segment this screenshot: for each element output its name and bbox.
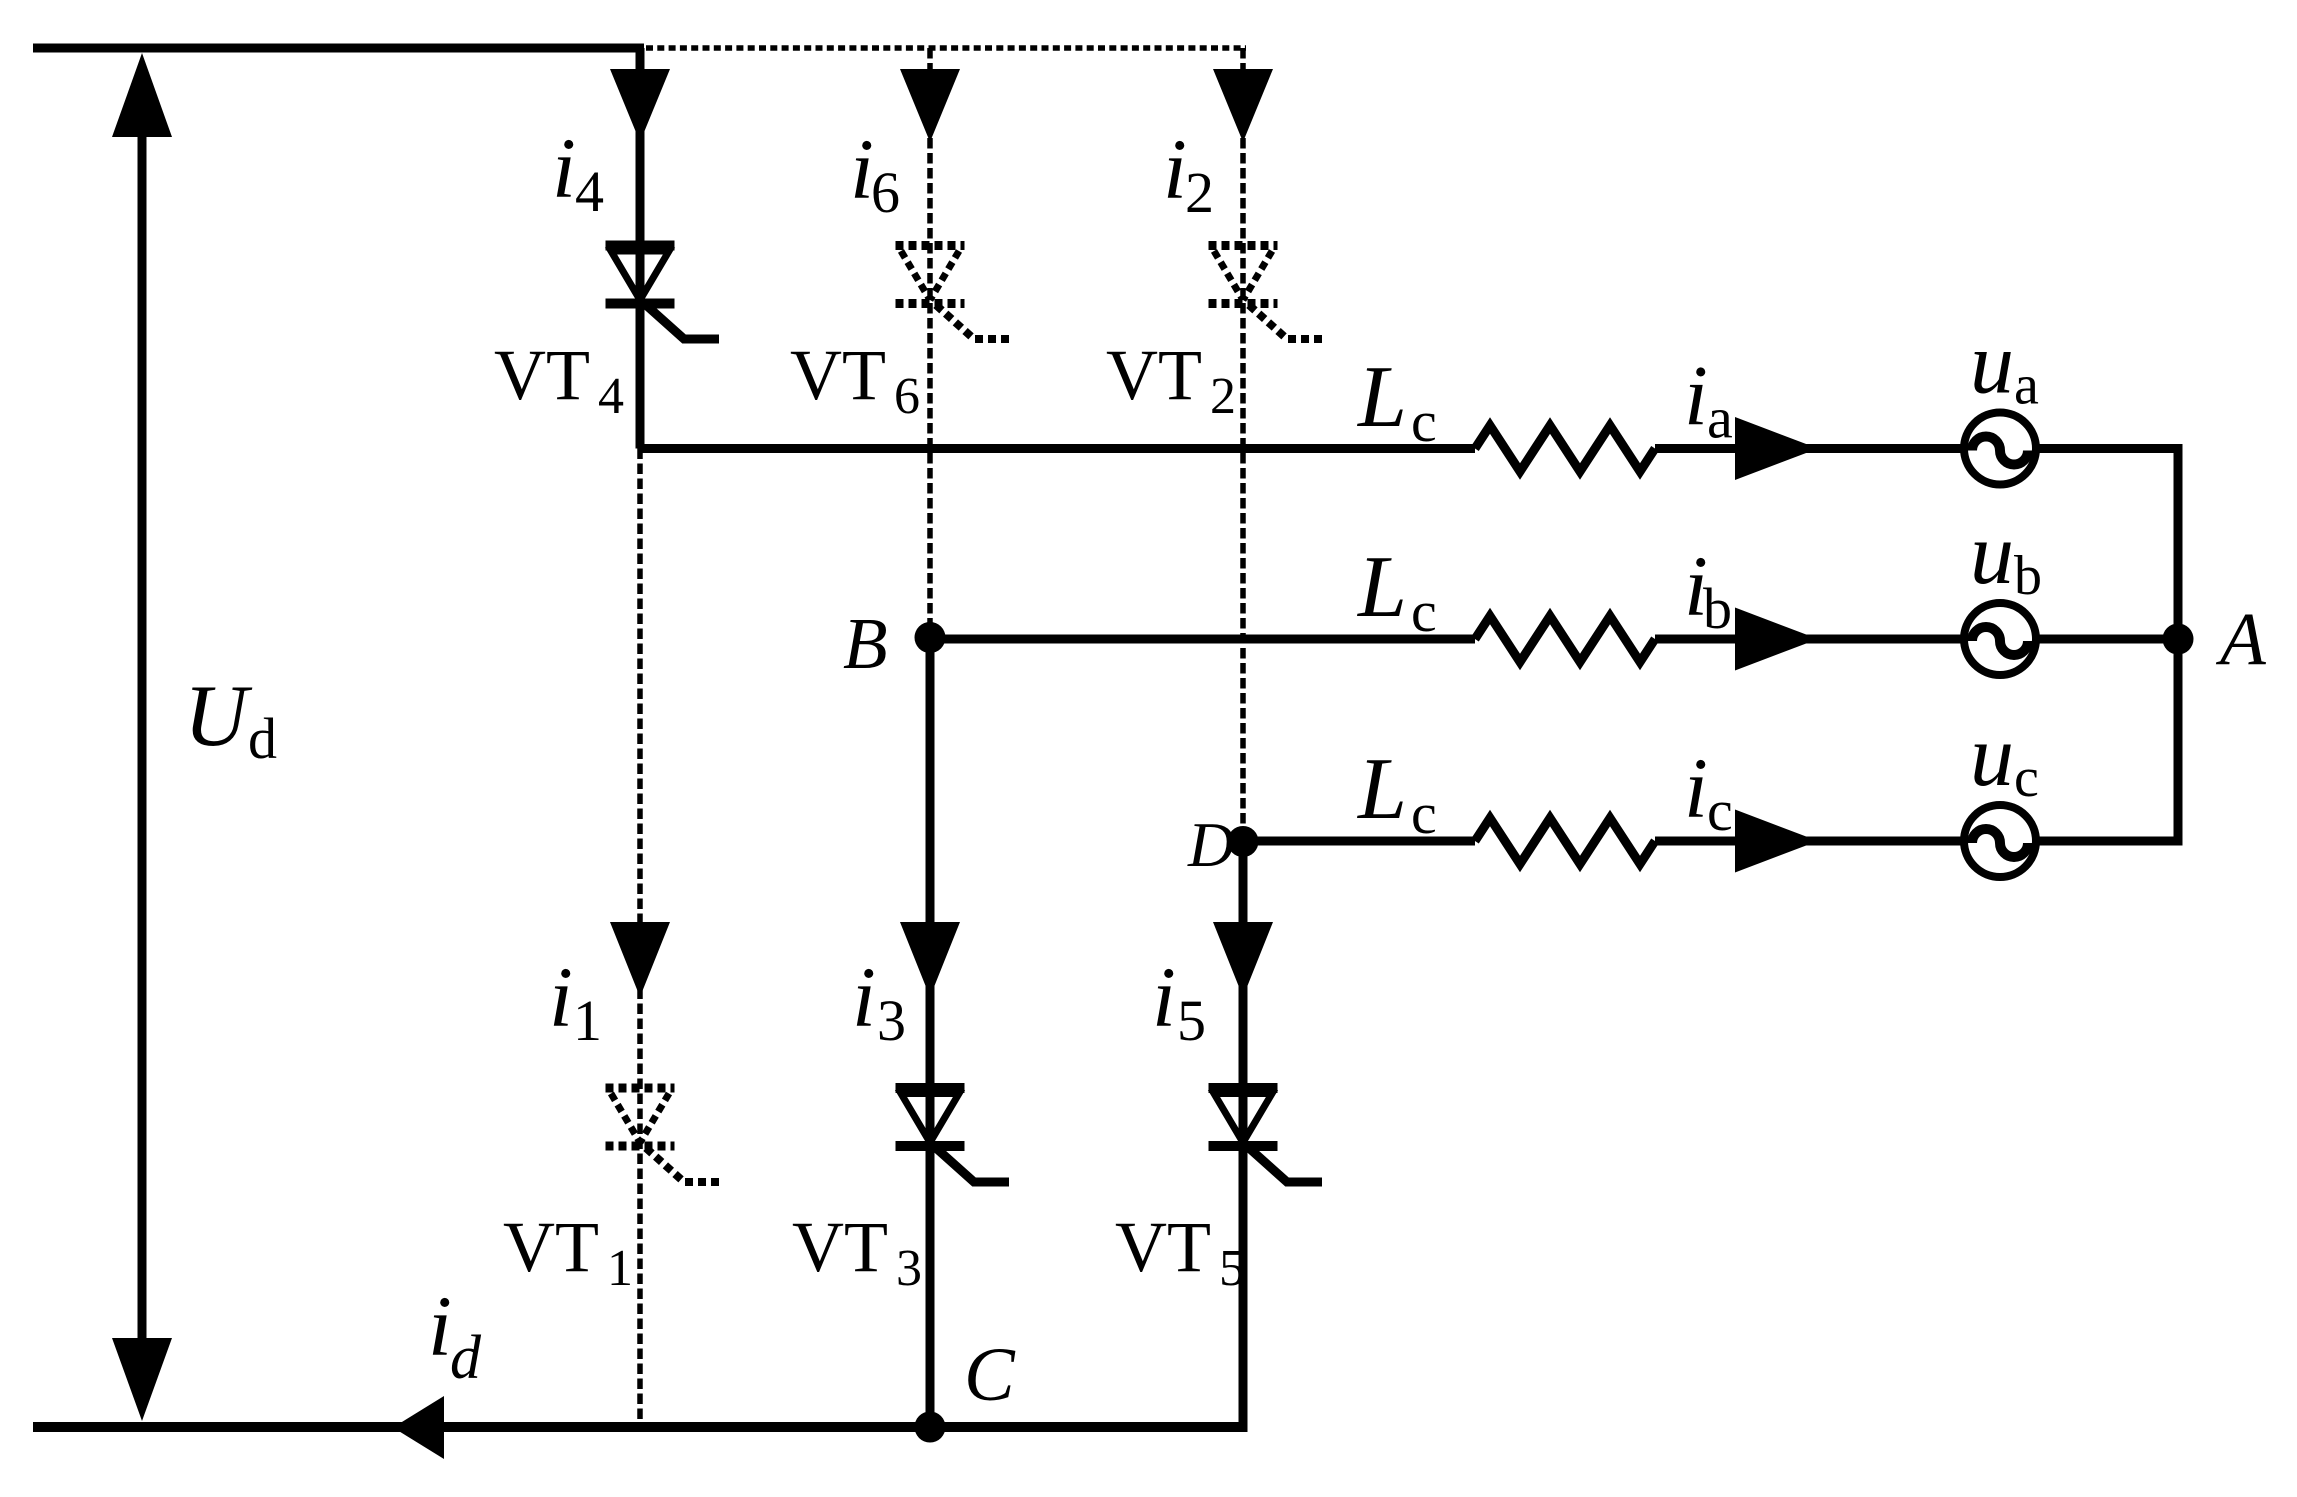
i3 current arrow — [900, 922, 960, 997]
label i2 — [1163, 121, 1214, 225]
svg-text:i: i — [549, 949, 573, 1045]
svg-text:u: u — [1970, 708, 2014, 805]
label ic — [1684, 740, 1733, 843]
svg-text:2: 2 — [1185, 160, 1214, 225]
label VT6 — [790, 335, 920, 425]
label Lc phase a — [1356, 349, 1437, 454]
svg-text:5: 5 — [1219, 1240, 1245, 1297]
node C — [915, 1412, 946, 1443]
thyristor VT3 — [896, 1088, 1010, 1182]
label ib — [1684, 538, 1732, 641]
svg-text:VT: VT — [792, 1207, 888, 1287]
Ud arrow head bottom — [112, 1338, 172, 1421]
id current arrow (left) — [393, 1396, 444, 1459]
label ia — [1684, 348, 1733, 451]
svg-text:1: 1 — [607, 1240, 633, 1297]
svg-text:c: c — [1411, 389, 1437, 454]
wire phase a horizontal — [640, 444, 2183, 453]
svg-text:c: c — [1411, 579, 1437, 644]
svg-text:u: u — [1970, 506, 2014, 603]
node B — [915, 622, 946, 653]
svg-text:i: i — [1163, 121, 1187, 217]
svg-text:b: b — [1703, 576, 1732, 641]
svg-text:a: a — [2014, 355, 2039, 417]
svg-text:c: c — [1707, 778, 1733, 843]
inductor Lc phase a zigzag — [1475, 426, 1655, 472]
thyristor VT5 — [1209, 1088, 1323, 1182]
svg-text:B: B — [843, 603, 888, 684]
svg-text:L: L — [1356, 741, 1407, 838]
label VT3 — [792, 1207, 922, 1297]
i2 current arrow — [1213, 69, 1273, 142]
AC source ub — [1964, 603, 2036, 675]
svg-text:3: 3 — [877, 988, 906, 1053]
svg-text:VT: VT — [494, 335, 590, 415]
label Lc phase b — [1356, 539, 1437, 644]
svg-text:4: 4 — [575, 159, 604, 224]
label VT5 — [1115, 1207, 1245, 1297]
svg-text:c: c — [2014, 747, 2039, 809]
label ub — [1970, 506, 2042, 607]
AC source ua — [1964, 413, 2036, 485]
wire top DC bus (solid) — [33, 44, 644, 53]
svg-text:C: C — [964, 1333, 1016, 1417]
svg-text:i: i — [552, 120, 576, 216]
svg-text:D: D — [1187, 809, 1234, 880]
ib current arrow — [1735, 608, 1818, 671]
svg-text:i: i — [428, 1278, 452, 1374]
i4 current arrow — [610, 69, 670, 142]
svg-text:i: i — [852, 949, 876, 1045]
label i3 — [852, 949, 906, 1053]
inductor Lc phase c zigzag — [1475, 818, 1655, 864]
AC source uc — [1964, 805, 2036, 877]
wire right bus vertical — [2174, 444, 2183, 846]
svg-text:d: d — [248, 706, 277, 771]
node D — [1228, 826, 1259, 857]
wire VT2 branch dotted vertical — [1240, 48, 1246, 841]
thyristor VT6 (dotted) — [896, 246, 1010, 340]
svg-text:b: b — [2014, 545, 2042, 607]
wire phase b horizontal — [930, 635, 2178, 644]
svg-text:4: 4 — [598, 368, 624, 425]
wire VT5 branch vertical (solid) — [1239, 841, 1248, 1427]
svg-text:6: 6 — [894, 368, 920, 425]
label Ud — [184, 668, 277, 771]
label i4 — [552, 120, 604, 224]
svg-text:A: A — [2215, 598, 2267, 681]
i5 current arrow — [1213, 922, 1273, 997]
wire VT4 branch vertical (solid) — [636, 48, 645, 449]
svg-text:c: c — [1411, 781, 1437, 846]
label i5 — [1152, 949, 1206, 1053]
inductor Lc phase b zigzag — [1475, 616, 1655, 662]
svg-text:i: i — [1684, 348, 1708, 444]
Ud measuring arrow line — [138, 120, 147, 1350]
svg-text:U: U — [184, 668, 253, 765]
label ua — [1970, 316, 2039, 417]
svg-text:5: 5 — [1177, 988, 1206, 1053]
svg-text:u: u — [1970, 316, 2014, 413]
label id — [428, 1278, 482, 1392]
svg-text:VT: VT — [1106, 335, 1202, 415]
wire top bus dotted extension — [646, 45, 1246, 51]
label i6 — [850, 121, 900, 225]
svg-text:d: d — [450, 1324, 482, 1392]
svg-text:i: i — [1152, 949, 1176, 1045]
wire VT6 branch dotted vertical — [927, 48, 933, 639]
label VT4 — [494, 335, 624, 425]
svg-text:L: L — [1356, 539, 1407, 636]
ia current arrow — [1735, 417, 1818, 480]
Ud arrow head top — [112, 53, 172, 137]
ic current arrow — [1735, 810, 1818, 873]
svg-text:6: 6 — [871, 160, 900, 225]
i1 current arrow — [610, 922, 670, 997]
svg-text:VT: VT — [790, 335, 886, 415]
svg-text:3: 3 — [896, 1240, 922, 1297]
label Lc phase c — [1356, 741, 1437, 846]
thyristor VT1 (dotted) — [606, 1088, 720, 1182]
thyristor VT4 — [606, 246, 720, 340]
svg-text:2: 2 — [1210, 368, 1236, 425]
wire bottom DC bus — [33, 1422, 1248, 1432]
wire VT1 branch dotted vertical — [637, 449, 643, 1428]
svg-text:1: 1 — [573, 988, 602, 1053]
i6 current arrow — [900, 69, 960, 142]
label VT1 — [503, 1207, 633, 1297]
label i1 — [549, 949, 602, 1053]
svg-text:L: L — [1356, 349, 1407, 446]
svg-text:a: a — [1707, 386, 1733, 451]
label uc — [1970, 708, 2039, 809]
label VT2 — [1106, 335, 1236, 425]
thyristor VT2 (dotted) — [1209, 246, 1323, 340]
svg-text:VT: VT — [503, 1207, 599, 1287]
wire VT3 branch vertical (solid) — [926, 639, 935, 1427]
wire phase c horizontal — [1243, 837, 2183, 846]
node A — [2163, 624, 2194, 655]
svg-text:VT: VT — [1115, 1207, 1211, 1287]
svg-text:i: i — [1684, 740, 1708, 836]
